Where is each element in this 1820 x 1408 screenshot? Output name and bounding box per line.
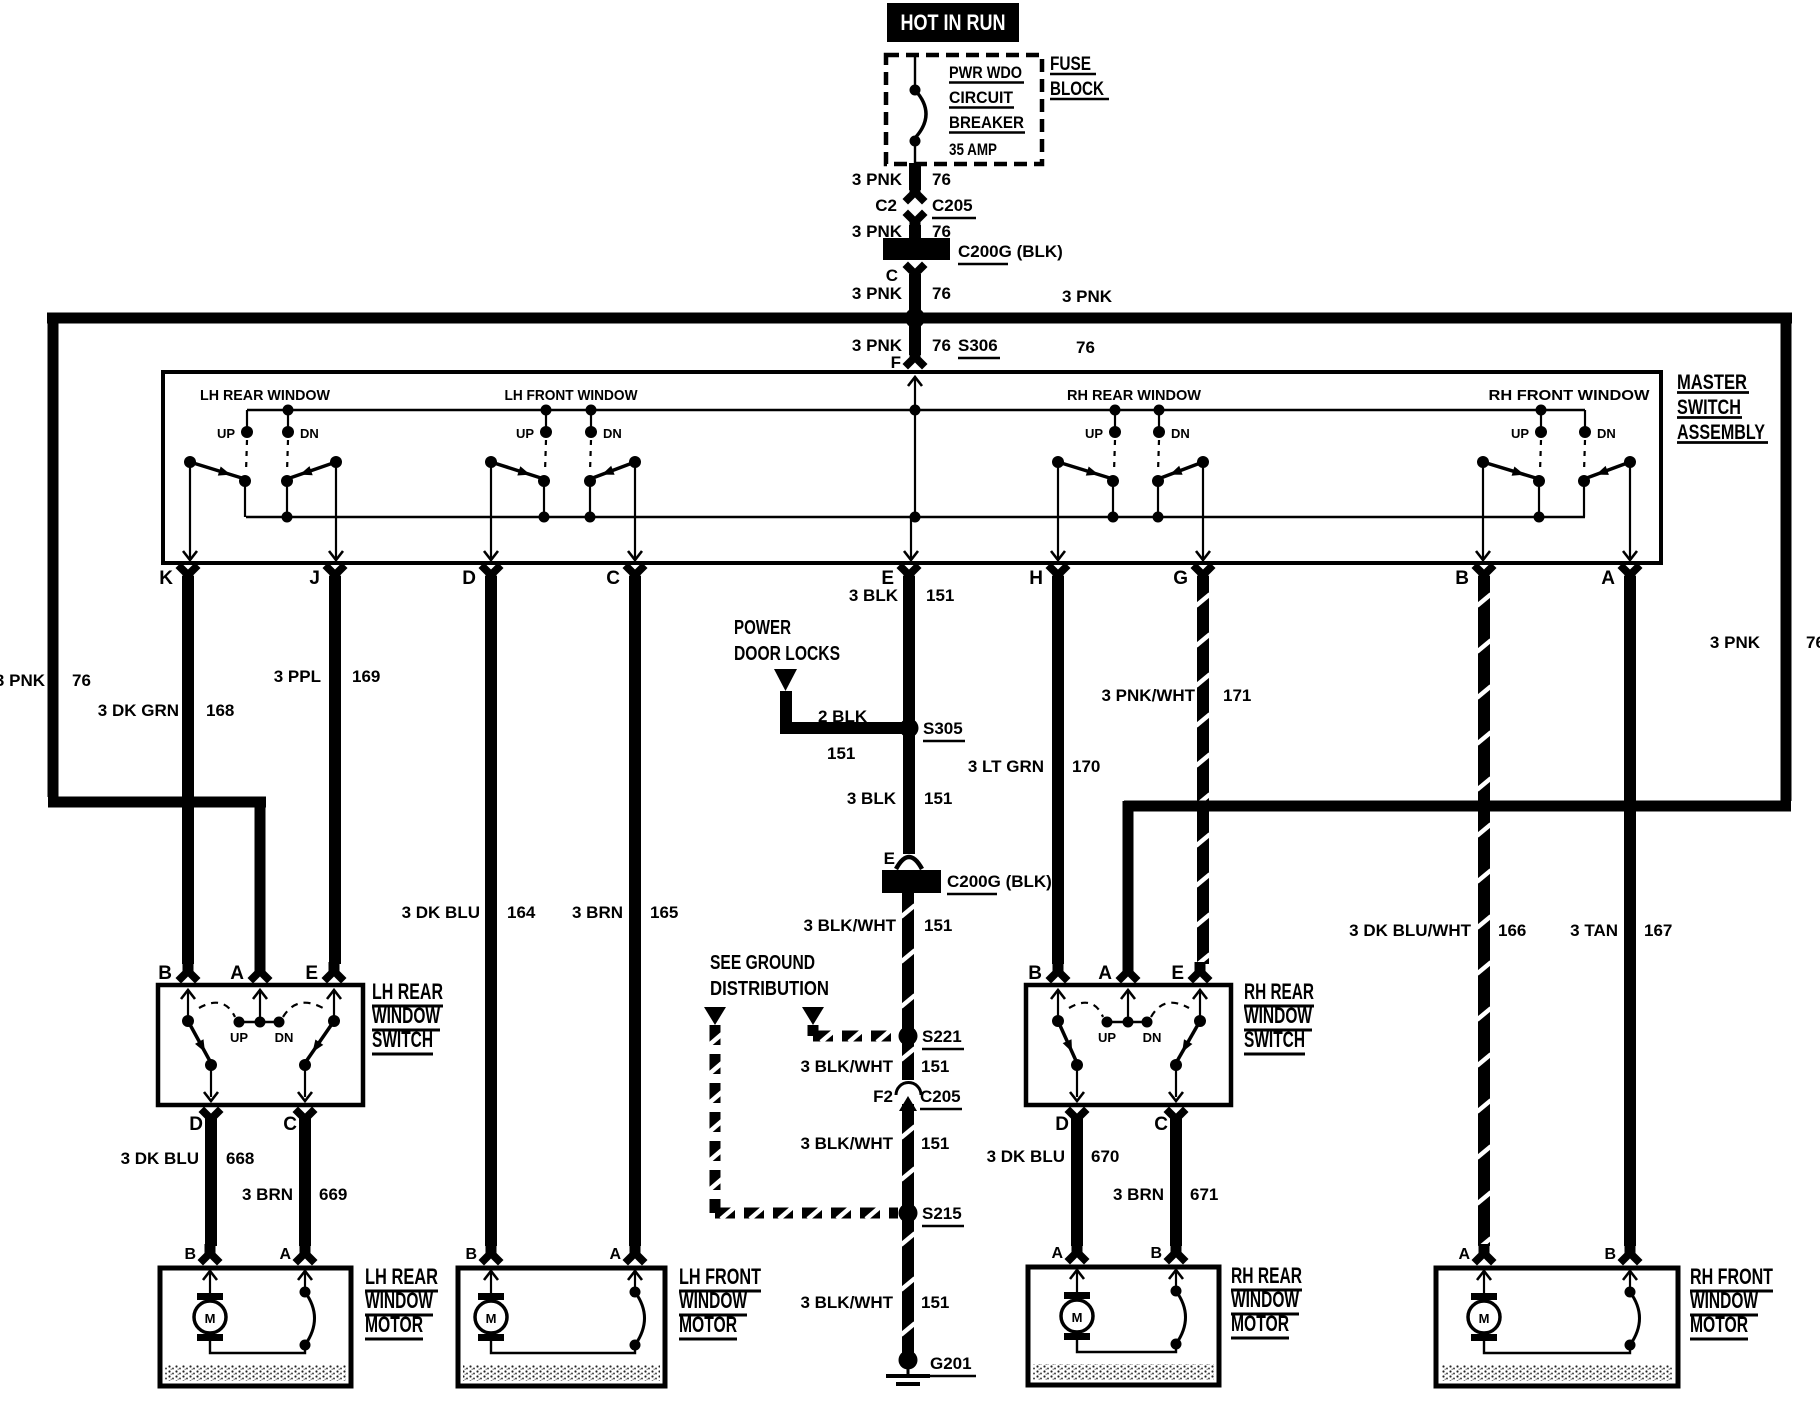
LH REAR WINDOW MOTOR internal wiring <box>210 1341 305 1353</box>
svg-text:DN: DN <box>603 426 622 441</box>
svg-text:A: A <box>1601 568 1615 589</box>
svg-text:DN: DN <box>1171 426 1190 441</box>
svg-text:3 BLK/WHT: 3 BLK/WHT <box>800 1134 893 1153</box>
LH REAR WINDOW MOTOR terminal B <box>198 1244 223 1266</box>
svg-text:UP: UP <box>1098 1030 1116 1045</box>
svg-text:3 PNK: 3 PNK <box>0 671 46 690</box>
svg-text:76: 76 <box>1806 633 1820 652</box>
wire 3 DK BLU/WHT 166 (B) <box>1478 576 1490 1246</box>
svg-text:HOT IN RUN: HOT IN RUN <box>901 10 1006 35</box>
switch unit LH REAR WINDOW dashed actuator links <box>246 440 247 472</box>
svg-text:167: 167 <box>1644 921 1672 940</box>
switch unit LH FRONT WINDOW right pivot drop <box>634 462 636 558</box>
switch unit RH REAR WINDOW right lever <box>1197 456 1209 468</box>
wire 3 BRN 165 (C) <box>629 576 641 1246</box>
wire 3 BRN 671 (RH C) <box>1170 1118 1182 1246</box>
switch unit LH REAR WINDOW DN contact <box>283 405 294 416</box>
svg-text:151: 151 <box>921 1293 949 1312</box>
switch unit LH REAR WINDOW right pivot drop <box>335 462 337 558</box>
switch unit RH REAR WINDOW contact drops to bottom bus <box>1112 481 1114 517</box>
svg-text:DOOR LOCKS: DOOR LOCKS <box>734 643 840 665</box>
wire 3 BRN 669 (LH C) <box>299 1118 311 1246</box>
switch unit RH REAR WINDOW left lever <box>1052 456 1064 468</box>
wire 3 BLK/WHT 151 C205 to S215 <box>902 1104 914 1213</box>
switch unit RH FRONT WINDOW right lever <box>1624 456 1636 468</box>
wire 3 BLK/WHT 151 C200G to S221 <box>902 893 914 1036</box>
svg-text:LH REAR: LH REAR <box>365 1264 438 1289</box>
svg-text:E: E <box>1171 963 1184 984</box>
splice S305 <box>900 719 919 738</box>
wire 3 PNK 76 C200G to S306 <box>909 274 921 322</box>
master switch top bus <box>247 409 1585 411</box>
svg-text:MOTOR: MOTOR <box>1690 1312 1748 1337</box>
svg-text:LH REAR WINDOW: LH REAR WINDOW <box>200 387 331 404</box>
splice S221 <box>899 1027 918 1046</box>
LH REAR WINDOW SWITCH box <box>158 985 363 1105</box>
svg-text:3 PNK: 3 PNK <box>852 170 903 189</box>
svg-text:B: B <box>184 1246 196 1263</box>
svg-text:3 BRN: 3 BRN <box>1113 1185 1164 1204</box>
svg-text:A: A <box>279 1246 291 1263</box>
svg-text:A: A <box>1098 963 1112 984</box>
svg-text:H: H <box>1029 568 1043 589</box>
svg-text:151: 151 <box>921 1134 949 1153</box>
svg-text:A: A <box>1458 1246 1470 1263</box>
svg-text:RH FRONT WINDOW: RH FRONT WINDOW <box>1489 387 1651 404</box>
wire 3 TAN 167 (A) <box>1624 576 1636 1246</box>
svg-text:CIRCUIT: CIRCUIT <box>949 88 1014 107</box>
svg-text:151: 151 <box>827 744 855 763</box>
svg-text:PWR WDO: PWR WDO <box>949 63 1022 82</box>
wire 3 BLK/WHT 151 S221 to C205 <box>902 1036 914 1080</box>
svg-text:3 BLK: 3 BLK <box>847 789 897 808</box>
svg-text:RH FRONT: RH FRONT <box>1690 1264 1773 1289</box>
svg-text:G: G <box>1173 568 1188 589</box>
svg-text:B: B <box>1604 1246 1616 1263</box>
LH FRONT WINDOW MOTOR terminal A <box>623 1244 648 1266</box>
svg-text:F2: F2 <box>873 1087 893 1106</box>
svg-text:G201: G201 <box>930 1354 972 1373</box>
connector C200G (BLK) top <box>883 238 950 260</box>
svg-text:UP: UP <box>230 1030 248 1045</box>
switch unit RH REAR WINDOW right pivot drop <box>1202 462 1204 558</box>
svg-text:DN: DN <box>1597 426 1616 441</box>
LH FRONT WINDOW MOTOR commutator arc <box>630 1287 641 1298</box>
wire 3 DK BLU 164 (D) <box>485 576 497 1246</box>
RH REAR WINDOW SWITCH left contact and lever <box>1052 1015 1064 1027</box>
svg-text:WINDOW: WINDOW <box>372 1003 440 1028</box>
master switch terminal B <box>1472 563 1497 585</box>
splice S215 <box>899 1204 918 1223</box>
wire 3 LT GRN 170 (H) <box>1052 576 1064 964</box>
svg-text:3 PNK/WHT: 3 PNK/WHT <box>1102 686 1196 705</box>
svg-text:FUSE: FUSE <box>1050 54 1091 75</box>
svg-text:S221: S221 <box>922 1027 962 1046</box>
switch unit LH FRONT WINDOW right lever <box>629 456 641 468</box>
svg-text:E: E <box>305 963 318 984</box>
LH REAR WINDOW SWITCH output terminal C <box>293 1107 318 1129</box>
svg-text:164: 164 <box>507 903 536 922</box>
RH REAR WINDOW SWITCH output terminal C <box>1164 1107 1189 1129</box>
RH FRONT WINDOW MOTOR terminal A <box>1472 1244 1497 1266</box>
LH REAR WINDOW MOTOR commutator arc <box>300 1287 311 1298</box>
svg-text:UP: UP <box>217 426 235 441</box>
svg-text:170: 170 <box>1072 757 1100 776</box>
RH FRONT WINDOW MOTOR motor M <box>1471 1293 1497 1300</box>
svg-text:RH REAR WINDOW: RH REAR WINDOW <box>1067 387 1202 404</box>
svg-text:LH FRONT WINDOW: LH FRONT WINDOW <box>505 387 639 404</box>
master switch terminal G <box>1191 563 1216 585</box>
RH REAR WINDOW SWITCH dashed links <box>1069 1003 1103 1017</box>
svg-text:DN: DN <box>300 426 319 441</box>
master switch bottom bus <box>246 516 1585 518</box>
RH FRONT WINDOW MOTOR commutator arc <box>1625 1287 1636 1298</box>
svg-text:76: 76 <box>932 336 951 355</box>
svg-text:D: D <box>462 568 476 589</box>
switch unit LH FRONT WINDOW left lever <box>485 456 497 468</box>
wire 3 BLK/WHT 151 S215 to G201 <box>902 1213 914 1360</box>
switch unit LH FRONT WINDOW left pivot drop <box>490 462 492 558</box>
svg-text:WINDOW: WINDOW <box>679 1288 747 1313</box>
switch unit LH REAR WINDOW UP contact <box>246 410 248 428</box>
svg-text:C: C <box>606 568 620 589</box>
svg-text:151: 151 <box>924 916 952 935</box>
svg-text:3 BLK: 3 BLK <box>849 586 899 605</box>
svg-text:76: 76 <box>932 170 951 189</box>
master switch terminal D <box>479 563 504 585</box>
switch unit RH REAR WINDOW UP contact <box>1110 405 1121 416</box>
LH REAR WINDOW SWITCH terminal B <box>176 962 201 984</box>
svg-text:M: M <box>1479 1311 1490 1326</box>
svg-text:S305: S305 <box>923 719 963 738</box>
svg-text:669: 669 <box>319 1185 347 1204</box>
svg-text:LH FRONT: LH FRONT <box>679 1264 761 1289</box>
svg-text:3 PNK: 3 PNK <box>1710 633 1761 652</box>
LH REAR WINDOW SWITCH output terminal D <box>199 1107 224 1129</box>
svg-text:3 DK BLU: 3 DK BLU <box>987 1147 1065 1166</box>
svg-text:76: 76 <box>72 671 91 690</box>
RH FRONT WINDOW MOTOR box <box>1436 1268 1678 1386</box>
RH REAR WINDOW SWITCH output terminal D <box>1065 1107 1090 1129</box>
svg-text:UP: UP <box>1085 426 1103 441</box>
svg-text:WINDOW: WINDOW <box>1690 1288 1758 1313</box>
svg-text:C205: C205 <box>920 1087 961 1106</box>
switch unit LH REAR WINDOW left pivot drop <box>189 462 191 558</box>
switch unit RH FRONT WINDOW dashed actuator links <box>1540 440 1541 472</box>
RH REAR WINDOW MOTOR internal wiring <box>1077 1340 1176 1352</box>
LH REAR WINDOW SWITCH output drops <box>210 1065 212 1097</box>
svg-text:168: 168 <box>206 701 234 720</box>
feed F into switch assembly <box>908 377 922 386</box>
hatched link to S215 <box>710 1025 721 1213</box>
RH REAR WINDOW SWITCH terminal B <box>1046 962 1071 984</box>
svg-text:LH REAR: LH REAR <box>372 979 443 1004</box>
svg-text:165: 165 <box>650 903 678 922</box>
svg-text:166: 166 <box>1498 921 1526 940</box>
svg-text:B: B <box>1150 1245 1162 1262</box>
RH REAR WINDOW MOTOR box <box>1028 1267 1219 1385</box>
svg-text:S215: S215 <box>922 1204 962 1223</box>
master switch assembly box <box>163 372 1661 563</box>
LH REAR WINDOW MOTOR box <box>160 1268 351 1386</box>
svg-text:A: A <box>609 1246 621 1263</box>
switch unit RH FRONT WINDOW UP contact <box>1536 405 1547 416</box>
master switch terminal H <box>1046 563 1071 585</box>
svg-text:J: J <box>309 568 320 589</box>
LH FRONT WINDOW MOTOR box <box>458 1268 665 1386</box>
svg-text:169: 169 <box>352 667 380 686</box>
hatched link to S221 <box>808 1025 819 1036</box>
fuse block dashed box <box>886 55 1042 164</box>
svg-text:3 BLK/WHT: 3 BLK/WHT <box>800 1057 893 1076</box>
svg-text:3 DK GRN: 3 DK GRN <box>98 701 179 720</box>
switch unit RH FRONT WINDOW left pivot drop <box>1482 462 1484 558</box>
LH REAR WINDOW SWITCH dashed links <box>199 1003 235 1017</box>
LH REAR WINDOW MOTOR terminal A <box>293 1244 318 1266</box>
wire 3 PNK right branch overcross <box>1124 801 1791 812</box>
svg-text:B: B <box>1455 568 1469 589</box>
svg-text:C2: C2 <box>875 196 897 215</box>
splice S306 <box>905 308 925 328</box>
svg-text:3 BLK/WHT: 3 BLK/WHT <box>803 916 896 935</box>
svg-text:M: M <box>1072 1310 1083 1325</box>
LH REAR WINDOW SWITCH left contact and lever <box>182 1015 194 1027</box>
LH REAR WINDOW MOTOR motor M <box>197 1293 223 1300</box>
switch unit LH REAR WINDOW left lever <box>184 456 196 468</box>
RH REAR WINDOW SWITCH right contact and lever <box>1194 1015 1206 1027</box>
LH REAR WINDOW SWITCH terminal A <box>248 962 273 984</box>
wire 3 PNK left branch <box>48 315 59 797</box>
wire 3 DK GRN 168 (K) <box>182 576 194 964</box>
svg-text:151: 151 <box>924 789 952 808</box>
svg-text:3 DK BLU: 3 DK BLU <box>402 903 480 922</box>
svg-text:3 BRN: 3 BRN <box>242 1185 293 1204</box>
svg-text:C200G (BLK): C200G (BLK) <box>947 872 1052 891</box>
switch unit RH FRONT WINDOW left lever <box>1477 456 1489 468</box>
svg-text:ASSEMBLY: ASSEMBLY <box>1677 421 1765 444</box>
main 3 PNK feed line <box>47 313 1792 324</box>
connector C205 (F2) <box>896 1083 921 1096</box>
master switch terminal E <box>897 563 922 585</box>
svg-text:UP: UP <box>1511 426 1529 441</box>
svg-text:3 LT GRN: 3 LT GRN <box>968 757 1044 776</box>
wire 3 DK BLU 668 (LH D) <box>205 1118 217 1246</box>
svg-text:A: A <box>230 963 244 984</box>
RH REAR WINDOW SWITCH terminal E <box>1188 962 1213 984</box>
switch unit LH FRONT WINDOW dashed actuator links <box>545 440 546 472</box>
svg-text:UP: UP <box>516 426 534 441</box>
RH REAR WINDOW MOTOR terminal A <box>1065 1243 1090 1265</box>
svg-text:A: A <box>1051 1245 1063 1262</box>
svg-text:SWITCH: SWITCH <box>1244 1027 1305 1052</box>
svg-text:K: K <box>159 568 173 589</box>
RH REAR WINDOW MOTOR commutator arc <box>1171 1286 1182 1297</box>
svg-text:B: B <box>158 963 172 984</box>
svg-text:E: E <box>884 849 895 868</box>
svg-text:S306: S306 <box>958 336 998 355</box>
ground distribution triangle right <box>802 1007 824 1025</box>
wire 3 DK BLU 670 (RH D) <box>1071 1118 1083 1246</box>
svg-text:C205: C205 <box>932 196 973 215</box>
svg-text:SEE GROUND: SEE GROUND <box>710 952 815 974</box>
svg-text:35 AMP: 35 AMP <box>949 140 997 159</box>
svg-text:C: C <box>1154 1114 1168 1135</box>
svg-text:B: B <box>465 1246 477 1263</box>
RH REAR WINDOW SWITCH box <box>1026 985 1231 1105</box>
svg-text:668: 668 <box>226 1149 254 1168</box>
switch unit RH REAR WINDOW dashed actuator links <box>1114 440 1115 472</box>
master switch terminal K <box>176 563 201 585</box>
svg-text:76: 76 <box>932 284 951 303</box>
svg-text:3 BRN: 3 BRN <box>572 903 623 922</box>
wire 3 PNK 76 fuse block to C205 <box>909 163 921 190</box>
svg-text:3 TAN: 3 TAN <box>1570 921 1618 940</box>
svg-text:3 PPL: 3 PPL <box>274 667 321 686</box>
svg-text:C: C <box>886 266 898 285</box>
svg-text:D: D <box>1055 1114 1069 1135</box>
svg-text:DN: DN <box>1143 1030 1162 1045</box>
circuit breaker PWR WDO 35 AMP <box>914 57 916 86</box>
master switch terminal C <box>623 563 648 585</box>
switch unit RH FRONT WINDOW contact drops to bottom bus <box>1538 481 1540 517</box>
svg-text:MOTOR: MOTOR <box>1231 1311 1289 1336</box>
LH REAR WINDOW SWITCH right contact and lever <box>328 1015 340 1027</box>
switch unit LH FRONT WINDOW contact drops to bottom bus <box>543 481 545 517</box>
svg-text:SWITCH: SWITCH <box>372 1027 433 1052</box>
ground G201 <box>899 1351 918 1370</box>
svg-text:670: 670 <box>1091 1147 1119 1166</box>
power label HOT IN RUN <box>887 3 1019 42</box>
switch unit LH REAR WINDOW contact drops to bottom bus <box>244 481 246 517</box>
LH FRONT WINDOW MOTOR internal wiring <box>491 1341 635 1353</box>
wire 3 PNK 76 C205 to C200G <box>909 225 921 240</box>
svg-text:M: M <box>486 1311 497 1326</box>
RH REAR WINDOW SWITCH output drops <box>1076 1065 1078 1097</box>
switch unit RH FRONT WINDOW right pivot drop <box>1629 462 1631 558</box>
svg-text:671: 671 <box>1190 1185 1218 1204</box>
switch unit LH FRONT WINDOW UP contact <box>541 405 552 416</box>
ground distribution triangle left <box>704 1007 726 1025</box>
svg-text:DN: DN <box>275 1030 294 1045</box>
master switch terminal A <box>1618 563 1643 585</box>
power door locks feed triangle <box>774 669 797 691</box>
svg-text:3 DK BLU/WHT: 3 DK BLU/WHT <box>1349 921 1471 940</box>
svg-text:76: 76 <box>1076 338 1095 357</box>
svg-text:MASTER: MASTER <box>1677 371 1747 394</box>
LH FRONT WINDOW MOTOR terminal B <box>479 1244 504 1266</box>
svg-text:2 BLK: 2 BLK <box>818 707 868 726</box>
svg-text:DISTRIBUTION: DISTRIBUTION <box>710 978 829 1000</box>
LH FRONT WINDOW MOTOR motor M <box>478 1293 504 1300</box>
svg-text:B: B <box>1028 963 1042 984</box>
svg-text:RH REAR: RH REAR <box>1244 979 1314 1004</box>
svg-text:3 PNK: 3 PNK <box>852 284 903 303</box>
switch unit RH REAR WINDOW left pivot drop <box>1057 462 1059 558</box>
LH REAR WINDOW SWITCH contact bar <box>239 1021 279 1023</box>
svg-text:WINDOW: WINDOW <box>365 1288 433 1313</box>
svg-text:SWITCH: SWITCH <box>1677 396 1741 419</box>
RH FRONT WINDOW MOTOR internal wiring <box>1484 1341 1630 1353</box>
wire 3 PNK/WHT 171 (G) <box>1197 576 1209 964</box>
RH FRONT WINDOW MOTOR terminal B <box>1618 1244 1643 1266</box>
svg-text:3 DK BLU: 3 DK BLU <box>121 1149 199 1168</box>
svg-text:171: 171 <box>1223 686 1251 705</box>
LH REAR WINDOW SWITCH terminal E <box>322 962 347 984</box>
svg-text:F: F <box>891 353 901 372</box>
svg-text:WINDOW: WINDOW <box>1244 1003 1312 1028</box>
wire 3 PPL 169 (J) <box>329 576 341 964</box>
wire S306 to master switch F <box>909 318 921 355</box>
master switch terminal J <box>323 563 348 585</box>
svg-text:MOTOR: MOTOR <box>679 1312 737 1337</box>
svg-text:RH REAR: RH REAR <box>1231 1263 1302 1288</box>
svg-text:C200G (BLK): C200G (BLK) <box>958 242 1063 261</box>
switch unit LH FRONT WINDOW DN contact <box>586 405 597 416</box>
svg-text:MOTOR: MOTOR <box>365 1312 423 1337</box>
svg-text:POWER: POWER <box>734 617 791 639</box>
svg-text:M: M <box>205 1311 216 1326</box>
RH REAR WINDOW MOTOR motor M <box>1064 1292 1090 1299</box>
svg-text:WINDOW: WINDOW <box>1231 1287 1299 1312</box>
RH REAR WINDOW SWITCH contact bar <box>1107 1021 1147 1023</box>
svg-text:151: 151 <box>921 1057 949 1076</box>
wire 3 BLK 151 (E) <box>903 576 915 854</box>
connector C205 (C2) <box>903 183 928 205</box>
switch unit LH REAR WINDOW right lever <box>330 456 342 468</box>
svg-text:D: D <box>189 1114 203 1135</box>
RH REAR WINDOW MOTOR terminal B <box>1164 1243 1189 1265</box>
svg-text:BLOCK: BLOCK <box>1050 79 1104 100</box>
switch unit RH REAR WINDOW DN contact <box>1154 405 1165 416</box>
switch unit RH FRONT WINDOW DN contact <box>1584 410 1586 428</box>
wire 3 PNK right branch <box>1781 315 1792 801</box>
wire 2 BLK 151 door locks to S305 <box>780 691 792 728</box>
wire 3 PNK left branch overcross <box>48 797 266 808</box>
svg-text:C: C <box>283 1114 297 1135</box>
RH REAR WINDOW SWITCH terminal A <box>1116 962 1141 984</box>
svg-text:3 PNK: 3 PNK <box>1062 287 1113 306</box>
svg-text:151: 151 <box>926 586 954 605</box>
svg-text:3 BLK/WHT: 3 BLK/WHT <box>800 1293 893 1312</box>
svg-text:BREAKER: BREAKER <box>949 113 1024 132</box>
